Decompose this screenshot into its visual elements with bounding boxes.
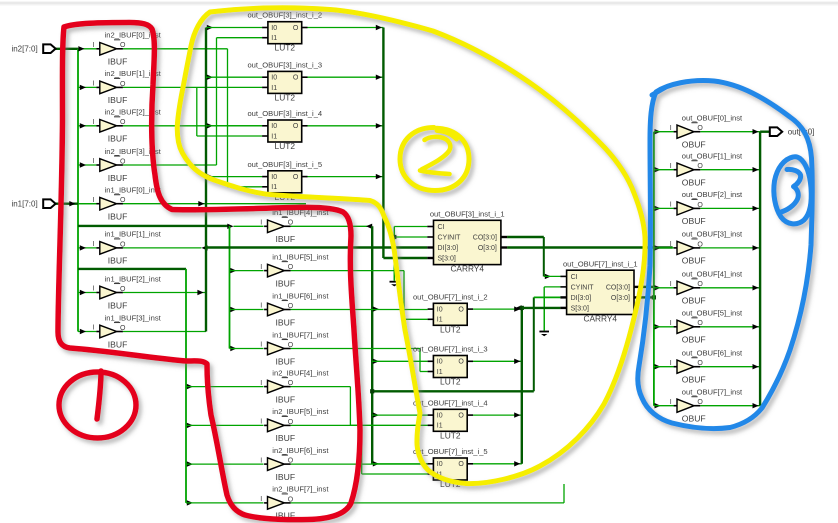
- svg-text:in1_IBUF[5]_inst: in1_IBUF[5]_inst: [272, 252, 329, 261]
- svg-text:IBUF: IBUF: [276, 356, 296, 366]
- svg-text:out_OBUF[7]_inst_i_3: out_OBUF[7]_inst_i_3: [413, 345, 488, 354]
- svg-text:OBUF: OBUF: [682, 414, 706, 424]
- buffer in2_IBUF[7]_inst: [260, 485, 329, 521]
- svg-text:out_OBUF[0]_inst: out_OBUF[0]_inst: [682, 114, 743, 123]
- svg-text:I: I: [260, 380, 262, 387]
- wire net in2_IBUF[5] out to I1 of LUT i_5: [291, 425, 428, 474]
- svg-text:LUT2: LUT2: [275, 43, 296, 53]
- wire net in2_IBUF[6] out direct to LUT2 I0: [291, 463, 428, 465]
- wire in1 bus from port to trunk: [56, 202, 79, 204]
- svg-text:I1: I1: [271, 35, 277, 42]
- svg-text:I: I: [93, 158, 95, 165]
- svg-text:CO[3:0]: CO[3:0]: [473, 234, 497, 241]
- svg-text:LUT2: LUT2: [440, 377, 461, 387]
- buffer out_OBUF[1]_inst: [670, 152, 743, 188]
- buffer in2_IBUF[0]_inst: [93, 31, 162, 67]
- svg-text:OBUF: OBUF: [682, 140, 706, 150]
- svg-text:I: I: [670, 163, 672, 170]
- svg-text:in2_IBUF[6]_inst: in2_IBUF[6]_inst: [272, 446, 329, 455]
- svg-text:O: O: [293, 25, 299, 32]
- svg-text:O: O: [458, 413, 464, 420]
- svg-text:out_OBUF[7]_inst: out_OBUF[7]_inst: [682, 388, 743, 397]
- svg-text:out_OBUF[6]_inst: out_OBUF[6]_inst: [682, 349, 743, 358]
- svg-text:IBUF: IBUF: [276, 394, 296, 404]
- wire net in1_IBUF[0] out: [78, 203, 306, 205]
- svg-text:IBUF: IBUF: [108, 173, 128, 183]
- annotation blue loop around OBUF column: [638, 81, 813, 429]
- svg-text:in1_IBUF[1]_inst: in1_IBUF[1]_inst: [105, 230, 162, 239]
- svg-text:I: I: [260, 496, 262, 503]
- wire O of CARRY4 2 to OBUF feeder: [640, 295, 656, 299]
- svg-text:IBUF: IBUF: [108, 134, 128, 144]
- buffer in2_IBUF[1]_inst: [93, 69, 162, 105]
- ground symbol for CARRY4 2 CYINIT: [539, 297, 549, 336]
- svg-text:O: O: [293, 174, 299, 181]
- svg-text:OBUF: OBUF: [682, 335, 706, 345]
- wire LUT col1 outputs to S bus x=383.4: [308, 25, 428, 258]
- annotation red circle for label 1: [59, 372, 136, 438]
- LUT2 out_OBUF[7]_inst_i_2: [413, 292, 488, 334]
- svg-text:in1_IBUF[0]_inst: in1_IBUF[0]_inst: [105, 186, 162, 195]
- svg-text:out_OBUF[2]_inst: out_OBUF[2]_inst: [682, 190, 743, 199]
- wire net in1_IBUF[6] out direct to LUT2 I0: [291, 309, 428, 311]
- svg-text:CARRY4: CARRY4: [450, 264, 484, 274]
- wire net in2_IBUF[0] out: [123, 49, 262, 187]
- svg-text:I: I: [670, 399, 672, 406]
- svg-text:CI: CI: [571, 274, 578, 281]
- svg-text:in1_IBUF[2]_inst: in1_IBUF[2]_inst: [105, 274, 162, 283]
- svg-text:out_OBUF[4]_inst: out_OBUF[4]_inst: [682, 270, 743, 279]
- wire net in1_IBUF[1] out: [123, 245, 208, 250]
- top toolbar edge: [0, 2, 838, 5]
- svg-text:I: I: [670, 202, 672, 209]
- svg-text:CYINIT: CYINIT: [438, 234, 462, 241]
- wire in2 bus from port to vertical trunk: [56, 48, 79, 50]
- annotation yellow loop around LUT columns: [177, 8, 645, 484]
- svg-text:I: I: [670, 125, 672, 132]
- svg-text:out_OBUF[7]_inst_i_2: out_OBUF[7]_inst_i_2: [413, 292, 488, 301]
- svg-text:in2_IBUF[7]_inst: in2_IBUF[7]_inst: [272, 485, 329, 494]
- svg-text:out_OBUF[7]_inst_i_1: out_OBUF[7]_inst_i_1: [563, 259, 638, 268]
- wire O of CARRY4 1 to OBUF rows: [507, 246, 672, 248]
- svg-text:LUT2: LUT2: [275, 141, 296, 151]
- svg-text:IBUF: IBUF: [108, 95, 128, 105]
- wire net in2_IBUF[1] out: [123, 87, 262, 136]
- wire net in1_IBUF[7] out to I1 of LUT i_3: [291, 349, 428, 372]
- wire OBUF outputs to out bus x=760.1: [700, 129, 770, 408]
- svg-text:I: I: [670, 241, 672, 248]
- svg-text:out_OBUF[3]_inst_i_5: out_OBUF[3]_inst_i_5: [247, 160, 322, 169]
- svg-text:I: I: [260, 264, 262, 271]
- svg-text:I0: I0: [437, 413, 443, 420]
- svg-text:out_OBUF[3]_inst: out_OBUF[3]_inst: [682, 230, 743, 239]
- svg-text:LUT2: LUT2: [275, 92, 296, 102]
- svg-text:IBUF: IBUF: [108, 300, 128, 310]
- wire net in2_IBUF[7] out: [291, 484, 564, 503]
- svg-text:out_OBUF[3]_inst_i_3: out_OBUF[3]_inst_i_3: [247, 60, 322, 69]
- annotation yellow digit 2: [420, 137, 450, 174]
- svg-text:out_OBUF[5]_inst: out_OBUF[5]_inst: [682, 309, 743, 318]
- svg-text:O: O: [458, 307, 464, 314]
- svg-text:I: I: [93, 81, 95, 88]
- buffer out_OBUF[0]_inst: [670, 114, 743, 150]
- svg-text:I: I: [260, 419, 262, 426]
- annotation red digit 1: [97, 371, 101, 419]
- buffer out_OBUF[7]_inst: [670, 388, 743, 424]
- svg-text:O[3:0]: O[3:0]: [611, 295, 630, 302]
- LUT2 out_OBUF[7]_inst_i_4: [413, 398, 488, 440]
- wire net in2_IBUF[2] out: [123, 125, 262, 127]
- svg-text:O: O: [458, 359, 464, 366]
- annotation blue blob for label 3: [774, 157, 811, 224]
- svg-text:IBUF: IBUF: [108, 339, 128, 349]
- wire middle column feeder x=229.5 (in1[5:7]): [230, 226, 264, 351]
- svg-text:DI[3:0]: DI[3:0]: [571, 295, 592, 302]
- buffer in1_IBUF[2]_inst: [93, 274, 162, 310]
- wire net in1_IBUF[5] out to I1 of LUT i_2: [291, 271, 428, 320]
- svg-text:S[3:0]: S[3:0]: [571, 305, 589, 312]
- svg-text:in2_IBUF[5]_inst: in2_IBUF[5]_inst: [272, 407, 329, 416]
- buffer out_OBUF[6]_inst: [670, 349, 743, 385]
- svg-text:I1: I1: [437, 423, 443, 430]
- svg-text:I1: I1: [437, 317, 443, 324]
- svg-text:IBUF: IBUF: [108, 256, 128, 266]
- buffer out_OBUF[5]_inst: [670, 309, 743, 345]
- buffer in2_IBUF[2]_inst: [93, 108, 162, 144]
- svg-text:I: I: [93, 286, 95, 293]
- LUT2 out_OBUF[3]_inst_i_4: [247, 109, 322, 151]
- svg-text:I: I: [93, 197, 95, 204]
- svg-text:in2[7:0]: in2[7:0]: [11, 44, 37, 53]
- svg-text:OBUF: OBUF: [682, 375, 706, 385]
- input port in1[7:0]: [11, 199, 55, 208]
- svg-text:O[3:0]: O[3:0]: [478, 245, 497, 252]
- svg-text:IBUF: IBUF: [276, 278, 296, 288]
- buffer in1_IBUF[4]_inst: [260, 208, 329, 244]
- LUT2 out_OBUF[7]_inst_i_5: [413, 447, 488, 489]
- svg-text:out_OBUF[1]_inst: out_OBUF[1]_inst: [682, 152, 743, 161]
- svg-text:I0: I0: [437, 359, 443, 366]
- svg-text:O: O: [293, 123, 299, 130]
- svg-text:I1: I1: [271, 184, 277, 191]
- LUT2 out_OBUF[3]_inst_i_2: [247, 11, 322, 53]
- svg-text:in1_IBUF[6]_inst: in1_IBUF[6]_inst: [272, 291, 329, 300]
- svg-text:I: I: [93, 119, 95, 126]
- wire net in1_IBUF[3] out: [123, 331, 206, 333]
- buffer in2_IBUF[5]_inst: [260, 407, 329, 443]
- svg-text:I0: I0: [437, 461, 443, 468]
- svg-text:in2_IBUF[4]_inst: in2_IBUF[4]_inst: [272, 368, 329, 377]
- wire in2/in1 vertical trunk at x=78: [77, 49, 79, 332]
- buffer in1_IBUF[7]_inst: [260, 330, 329, 366]
- svg-text:IBUF: IBUF: [108, 57, 128, 67]
- svg-text:I: I: [670, 320, 672, 327]
- svg-text:CYINIT: CYINIT: [571, 284, 595, 291]
- svg-text:I: I: [260, 220, 262, 227]
- svg-text:I: I: [93, 241, 95, 248]
- wire middle column feeder x=186 (in2[4:7]): [186, 269, 264, 506]
- svg-text:S[3:0]: S[3:0]: [438, 255, 456, 262]
- wire dark vertical trunk x=206 (overlapping nets): [205, 28, 207, 332]
- svg-text:I0: I0: [437, 307, 443, 314]
- junction arrows on trunk x=78: [69, 46, 86, 334]
- wire in1_IBUF[4] out to vertical x=372.2: [291, 224, 373, 229]
- svg-text:IBUF: IBUF: [276, 472, 296, 482]
- wire DI[3:0] feed of CARRY4 out_OBUF[3]_inst_i_1: [206, 246, 427, 248]
- svg-text:OBUF: OBUF: [682, 256, 706, 266]
- svg-text:CI: CI: [438, 224, 445, 231]
- svg-text:out_OBUF[3]_inst_i_4: out_OBUF[3]_inst_i_4: [247, 109, 322, 118]
- svg-text:OBUF: OBUF: [682, 296, 706, 306]
- svg-text:out_OBUF[3]_inst_i_2: out_OBUF[3]_inst_i_2: [247, 11, 322, 20]
- svg-text:IBUF: IBUF: [276, 234, 296, 244]
- buffer in1_IBUF[3]_inst: [93, 313, 162, 349]
- svg-text:I: I: [93, 325, 95, 332]
- buffer in1_IBUF[6]_inst: [260, 291, 329, 327]
- svg-text:out_OBUF[7]_inst_i_5: out_OBUF[7]_inst_i_5: [413, 447, 488, 456]
- svg-text:out_OBUF[3]_inst_i_1: out_OBUF[3]_inst_i_1: [430, 210, 505, 219]
- buffer in1_IBUF[0]_inst: [93, 186, 162, 222]
- buffer in1_IBUF[5]_inst: [260, 252, 329, 288]
- svg-text:I0: I0: [271, 123, 277, 130]
- svg-text:in1_IBUF[7]_inst: in1_IBUF[7]_inst: [272, 330, 329, 339]
- svg-text:I: I: [260, 457, 262, 464]
- wire LUT col2 outputs to S bus x=521.8: [473, 305, 560, 466]
- svg-text:IBUF: IBUF: [276, 433, 296, 443]
- svg-text:I: I: [670, 360, 672, 367]
- svg-text:O: O: [458, 461, 464, 468]
- svg-text:I0: I0: [271, 25, 277, 32]
- svg-text:I0: I0: [271, 75, 277, 82]
- svg-text:I: I: [670, 281, 672, 288]
- buffer out_OBUF[2]_inst: [670, 190, 743, 226]
- buffer out_OBUF[3]_inst: [670, 230, 743, 266]
- svg-text:IBUF: IBUF: [276, 317, 296, 327]
- wire CYINIT feed of CARRY4 2 with ground: [544, 287, 560, 330]
- wire CO of CARRY4 2: [640, 286, 654, 288]
- wire net in1_IBUF[2] out: [123, 290, 206, 295]
- buffer in2_IBUF[3]_inst: [93, 147, 162, 183]
- LUT2 out_OBUF[7]_inst_i_3: [413, 345, 488, 387]
- buffer in1_IBUF[1]_inst: [93, 230, 162, 266]
- wire thick row to in1_IBUF[4] input: [78, 224, 264, 229]
- junction arrows feeding LUT col1 I0 pins: [206, 25, 262, 180]
- svg-text:OBUF: OBUF: [682, 216, 706, 226]
- svg-text:I1: I1: [437, 369, 443, 376]
- svg-text:IBUF: IBUF: [108, 212, 128, 222]
- wire dark row y=391.3 to DI of CARRY4 2: [370, 297, 560, 393]
- CARRY4 out_OBUF[3]_inst_i_1: [427, 210, 507, 274]
- wire OBUF input feeder x=653.9: [654, 129, 674, 408]
- LUT2 out_OBUF[3]_inst_i_5: [247, 160, 322, 202]
- output port out[7:0]: [770, 127, 815, 136]
- svg-text:O: O: [293, 75, 299, 82]
- svg-text:I: I: [93, 42, 95, 49]
- svg-text:DI[3:0]: DI[3:0]: [438, 245, 459, 252]
- svg-text:I0: I0: [271, 174, 277, 181]
- svg-text:LUT2: LUT2: [440, 324, 461, 334]
- junction arrow in1[0] row at trunk: [198, 201, 204, 206]
- svg-text:I: I: [260, 303, 262, 310]
- annotation red loop around IBUF columns: [58, 23, 360, 520]
- buffer in2_IBUF[6]_inst: [260, 446, 329, 482]
- svg-text:in1[7:0]: in1[7:0]: [11, 200, 37, 209]
- wire net in2_IBUF[4] out to I1 of LUT i_4: [291, 387, 428, 426]
- svg-text:I1: I1: [271, 85, 277, 92]
- svg-text:LUT2: LUT2: [440, 430, 461, 440]
- wire thick row feeding x=186 feeder: [78, 268, 186, 270]
- ground symbol for CARRY4 1 CYINIT: [390, 259, 400, 287]
- svg-text:I: I: [260, 342, 262, 349]
- svg-text:CO[3:0]: CO[3:0]: [606, 284, 630, 291]
- wire rows from trunk to left IBUF inputs: [78, 49, 96, 332]
- annotation yellow circle for label 2: [400, 128, 469, 191]
- wire CO of CARRY4 1 to CI of CARRY4 2: [507, 237, 560, 279]
- buffer out_OBUF[4]_inst: [670, 270, 743, 306]
- annotation blue digit 3: [780, 169, 801, 212]
- svg-text:I1: I1: [271, 133, 277, 140]
- svg-text:OBUF: OBUF: [682, 178, 706, 188]
- svg-text:in1_IBUF[3]_inst: in1_IBUF[3]_inst: [105, 313, 162, 322]
- LUT2 out_OBUF[3]_inst_i_3: [247, 60, 322, 102]
- svg-text:out_OBUF[7]_inst_i_4: out_OBUF[7]_inst_i_4: [413, 398, 488, 407]
- input port in2[7:0]: [11, 44, 55, 53]
- buffer in2_IBUF[4]_inst: [260, 368, 329, 404]
- wire net in2_IBUF[3] out: [123, 38, 262, 165]
- wire dark vertical x=372.2 feeding LUT col2 I0 pins: [372, 226, 427, 466]
- svg-text:CARRY4: CARRY4: [584, 314, 618, 324]
- wire CI/CYINIT feed of CARRY4 1 with node: [392, 227, 427, 281]
- CARRY4 out_OBUF[7]_inst_i_1: [560, 259, 640, 323]
